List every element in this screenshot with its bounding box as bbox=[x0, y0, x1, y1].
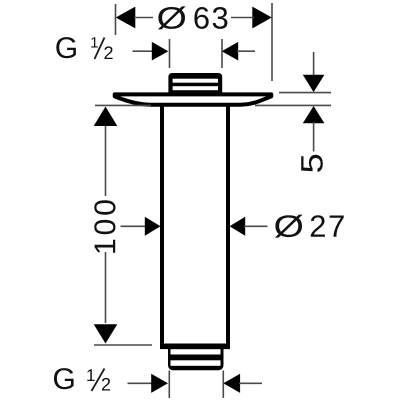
dimension 100 bottom extension line bbox=[94, 344, 152, 346]
part: ceiling flange plate bbox=[115, 94, 272, 104]
dimension Ø63 left arrow bbox=[116, 7, 153, 29]
dimension 100 upper line bbox=[105, 126, 107, 196]
dimension G1/2 top left-pointing arrow bbox=[222, 42, 255, 61]
dimension label 100 (rotated) bbox=[94, 200, 115, 252]
dimension Ø27 right arrow bbox=[230, 217, 268, 236]
dimension 100 down arrow bbox=[94, 324, 118, 343]
dimension Ø63 left extension line bbox=[115, 4, 117, 35]
dimension G1/2 bottom label bbox=[54, 368, 110, 391]
dimension G1/2 bottom left extension line bbox=[168, 371, 170, 399]
dimension label 5 (rotated) bbox=[301, 155, 323, 172]
dimension Ø63 right extension line bbox=[271, 3, 273, 81]
dimension 5 top extension line bbox=[279, 92, 331, 94]
dimension Ø27 left arrow bbox=[121, 217, 161, 236]
dimension G1/2 bottom right extension line bbox=[222, 371, 224, 399]
dimension 100 lower line bbox=[105, 252, 107, 323]
dimension label Ø27 bbox=[275, 215, 344, 238]
dimension 5 upper pointer line bbox=[313, 52, 315, 76]
part: top threaded nipple bbox=[168, 73, 222, 96]
dimension G1/2 top right extension line bbox=[221, 39, 223, 68]
dimension 100 up arrow bbox=[94, 107, 118, 127]
dimension 5 lower pointer line bbox=[313, 122, 315, 152]
dimension label Ø63 bbox=[158, 6, 228, 29]
dimension G1/2 top label bbox=[56, 37, 112, 59]
dimension 5 up arrow bbox=[303, 106, 325, 123]
dimension 100 top extension line bbox=[95, 104, 151, 106]
dimension 5 bottom extension line bbox=[255, 104, 331, 106]
dimension G1/2 bottom left-pointing arrow bbox=[223, 374, 262, 393]
dimension 5 down arrow bbox=[303, 75, 325, 92]
part: bottom threaded nipple bbox=[168, 346, 224, 370]
part: pipe left wall bbox=[160, 103, 164, 347]
dimension Ø63 right arrow bbox=[231, 7, 272, 29]
part: pipe right wall bbox=[226, 103, 230, 347]
dimension G1/2 bottom right-pointing arrow bbox=[128, 374, 169, 393]
part: pipe bottom end band bbox=[160, 344, 230, 350]
dimension G1/2 top left extension line bbox=[169, 39, 171, 68]
dimension G1/2 top right-pointing arrow bbox=[133, 42, 169, 61]
